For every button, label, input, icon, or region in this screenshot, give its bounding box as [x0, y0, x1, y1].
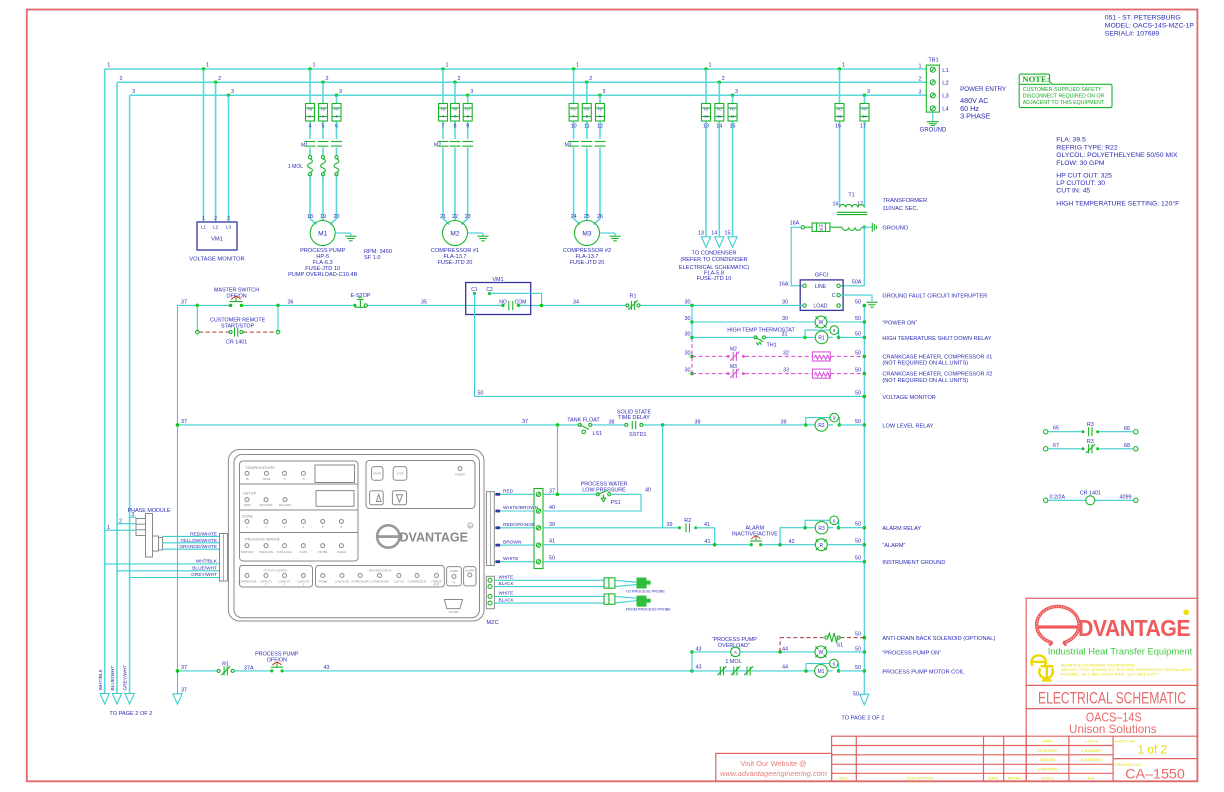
- svg-text:2: 2: [919, 76, 922, 82]
- svg-text:C2: C2: [486, 287, 493, 293]
- fuse FU4: [439, 104, 448, 122]
- title block frame: [1026, 598, 1197, 781]
- svg-text:3: 3: [919, 89, 922, 95]
- wire voltage monitor row 50: [475, 395, 865, 397]
- svg-text:DESIGNED: DESIGNED: [1037, 748, 1058, 753]
- svg-text:3: 3: [867, 89, 870, 95]
- terminal strip MZC: [534, 489, 543, 569]
- svg-text:30: 30: [782, 299, 788, 305]
- svg-text:39: 39: [667, 522, 673, 528]
- svg-text:GROUND FAULT CIRCUIT INTERUPTE: GROUND FAULT CIRCUIT INTERUPTER: [882, 293, 987, 299]
- svg-text:FU: FU: [465, 108, 470, 112]
- svg-text:FU: FU: [571, 108, 576, 112]
- voltage monitor VM1 box: [189, 216, 244, 263]
- timer contact SSTD1: [617, 410, 652, 439]
- svg-text:50: 50: [855, 331, 861, 337]
- svg-text:66: 66: [1124, 426, 1130, 432]
- svg-text:R3: R3: [818, 526, 825, 532]
- svg-text:TO PAGE 2 OF 2: TO PAGE 2 OF 2: [841, 715, 884, 721]
- svg-text:7: 7: [442, 123, 445, 129]
- svg-text:GROUND: GROUND: [920, 127, 947, 133]
- svg-text:CUT IN: 45: CUT IN: 45: [1056, 187, 1090, 194]
- contact R1 NC: [626, 293, 640, 310]
- wire bus L3: [130, 94, 927, 96]
- coil CR 1401: [1044, 491, 1139, 505]
- svg-text:REFRIG TYPE: R22: REFRIG TYPE: R22: [1056, 144, 1118, 151]
- wire row 39 RED/ORANGE: [543, 527, 678, 529]
- svg-text:2: 2: [589, 76, 592, 82]
- probe ferrules: [604, 578, 615, 605]
- ground at motor M1: [335, 232, 351, 234]
- title table grid: [1026, 736, 1197, 781]
- node: [276, 304, 280, 308]
- svg-text:TB: TB: [245, 477, 249, 481]
- svg-text:FLA: 39.5: FLA: 39.5: [1056, 137, 1086, 144]
- svg-text:15: 15: [725, 231, 731, 237]
- probe plug to: [637, 578, 651, 589]
- svg-text:WHT/BLK: WHT/BLK: [98, 668, 104, 690]
- svg-text:POWER ENTRY: POWER ENTRY: [960, 86, 1006, 93]
- svg-text:Unison Solutions: Unison Solutions: [1069, 722, 1157, 736]
- svg-text:SF 1.0: SF 1.0: [364, 255, 380, 261]
- svg-text:VM1: VM1: [211, 237, 223, 243]
- svg-text:WHITE: WHITE: [503, 556, 518, 562]
- svg-text:(REFER TO CONDENSER: (REFER TO CONDENSER: [680, 257, 747, 263]
- svg-text:50: 50: [855, 665, 861, 671]
- wire row 41 BROWN: [543, 544, 750, 546]
- motor M1: [310, 221, 335, 246]
- relay box VM1: [466, 277, 531, 315]
- svg-text:BLUE/WHT: BLUE/WHT: [192, 565, 217, 571]
- svg-text:23: 23: [465, 214, 471, 220]
- fuse FU6: [463, 104, 472, 122]
- svg-text:R: R: [819, 543, 823, 549]
- svg-text:3: 3: [603, 89, 606, 95]
- arrows to condenser: [701, 237, 710, 248]
- svg-text:1: 1: [842, 63, 845, 69]
- svg-text:CRANKCASE HEATER, COMPRESSOR #: CRANKCASE HEATER, COMPRESSOR #1: [882, 354, 992, 360]
- wire right rail 50: [863, 306, 865, 695]
- svg-text:12: 12: [731, 114, 735, 118]
- svg-text:STAT: STAT: [433, 582, 440, 586]
- svg-text:VOLTAGE MONITOR: VOLTAGE MONITOR: [189, 257, 244, 263]
- voltage monitor VM1 feeder wires: [203, 69, 205, 222]
- fuse FU13: [835, 104, 844, 122]
- svg-text:RED: RED: [503, 489, 514, 495]
- svg-text:15: 15: [730, 123, 736, 129]
- fuse FU7: [569, 104, 578, 122]
- ground under TB1: [920, 111, 947, 134]
- fuse FU9: [596, 104, 605, 122]
- svg-text:TX: TX: [452, 581, 456, 585]
- fuse FU10: [702, 104, 711, 122]
- svg-text:PUMP OVERLOAD-C10.4B: PUMP OVERLOAD-C10.4B: [288, 272, 357, 278]
- wire 50A from secondary to GFCI: [840, 227, 864, 286]
- svg-text:50: 50: [478, 390, 484, 396]
- svg-text:SCALE: SCALE: [1041, 776, 1054, 781]
- motor M3 branch wires: [574, 69, 600, 225]
- svg-text:FUSE-JTD 10: FUSE-JTD 10: [697, 276, 732, 282]
- svg-text:37: 37: [181, 665, 187, 671]
- svg-text:ANTI-DRAIN BACK SOLENOID (OPTI: ANTI-DRAIN BACK SOLENOID (OPTIONAL): [882, 636, 995, 642]
- svg-text:FU: FU: [862, 108, 867, 112]
- svg-text:GLYCOL: POLYETHELYENE 50/50 MI: GLYCOL: POLYETHELYENE 50/50 MIX: [1056, 152, 1178, 159]
- svg-text:MODEL: OACS-14S-MZC-1P: MODEL: OACS-14S-MZC-1P: [1105, 23, 1195, 30]
- svg-text:WHITE/BROWN: WHITE/BROWN: [503, 505, 539, 511]
- svg-text:21: 21: [440, 214, 446, 220]
- wire bypass stubs: [196, 305, 198, 332]
- svg-text:LS1: LS1: [593, 431, 603, 437]
- svg-text:30: 30: [782, 316, 788, 322]
- svg-text:37: 37: [181, 688, 187, 694]
- svg-text:L2: L2: [942, 80, 948, 86]
- svg-text:SSTD1: SSTD1: [629, 432, 646, 438]
- controller output control panel: [240, 566, 313, 588]
- svg-text:C1: C1: [471, 287, 478, 293]
- svg-text:PRESSURE: PRESSURE: [259, 550, 274, 554]
- svg-text:R2: R2: [818, 423, 825, 429]
- heater crankcase 2: [812, 369, 830, 378]
- svg-text:FLOW: 30 GPM: FLOW: 30 GPM: [1056, 160, 1105, 167]
- svg-text:1: 1: [709, 63, 712, 69]
- svg-text:RS-485: RS-485: [449, 610, 459, 614]
- svg-text:POWER: POWER: [455, 473, 465, 477]
- svg-text:1: 1: [313, 63, 316, 69]
- svg-text:FUSE-JTD 20: FUSE-JTD 20: [570, 260, 605, 266]
- svg-text:4: 4: [442, 114, 444, 118]
- wire left rail 37: [177, 305, 179, 693]
- svg-text:3: 3: [227, 216, 230, 222]
- svg-text:50: 50: [855, 299, 861, 305]
- fuse FU12: [728, 104, 737, 122]
- svg-text:GROUND: GROUND: [882, 225, 908, 231]
- svg-text:OUTPUT CONTROL: OUTPUT CONTROL: [263, 569, 288, 573]
- svg-text:50: 50: [855, 632, 861, 638]
- contact M2 aux NC: [727, 355, 730, 358]
- svg-text:YELLOW/WHITE: YELLOW/WHITE: [180, 538, 217, 544]
- svg-text:4: 4: [309, 123, 312, 129]
- svg-text:37: 37: [549, 488, 555, 494]
- svg-text:16: 16: [835, 123, 841, 129]
- svg-text:4099: 4099: [1120, 495, 1132, 501]
- controller comm/alarm panels: [447, 567, 476, 586]
- svg-text:BROWN: BROWN: [503, 539, 522, 545]
- svg-text:SETUP: SETUP: [243, 491, 257, 496]
- svg-text:“PROCESS PUMP ON”: “PROCESS PUMP ON”: [882, 650, 941, 656]
- svg-text:L1: L1: [201, 225, 207, 230]
- svg-text:PS1: PS1: [611, 500, 621, 506]
- svg-text:LOW OIL: LOW OIL: [393, 580, 404, 584]
- svg-text:5: 5: [322, 123, 325, 129]
- svg-text:5: 5: [454, 114, 456, 118]
- svg-text:6: 6: [467, 114, 469, 118]
- svg-text:37: 37: [522, 419, 528, 425]
- svg-text:LP CUTOUT: 30: LP CUTOUT: 30: [1056, 180, 1105, 187]
- svg-text:R3: R3: [1087, 439, 1094, 445]
- contact R3 NC spare: [1044, 439, 1139, 453]
- node: [540, 304, 544, 308]
- svg-text:50: 50: [549, 556, 555, 562]
- svg-text:9: 9: [599, 114, 601, 118]
- svg-text:TEMP DEV: TEMP DEV: [240, 550, 253, 554]
- wire up to overload lamp rung: [691, 652, 693, 671]
- svg-text:12: 12: [597, 123, 603, 129]
- fuse FU11: [715, 104, 724, 122]
- wire drop to R2 contact row: [662, 425, 664, 528]
- svg-text:TH1: TH1: [767, 343, 777, 349]
- svg-text:BLACK: BLACK: [499, 597, 515, 602]
- svg-text:N/A: N/A: [1088, 776, 1095, 781]
- svg-text:31: 31: [782, 331, 788, 337]
- contact M3 aux NC: [727, 372, 730, 375]
- svg-text:13: 13: [698, 231, 704, 237]
- svg-text:37: 37: [181, 419, 187, 425]
- svg-text:FU: FU: [837, 108, 842, 112]
- alarm horn: [815, 539, 827, 551]
- transformer T1 primary feeder wires: [840, 69, 865, 208]
- svg-text:1: 1: [446, 63, 449, 69]
- svg-text:L3: L3: [942, 94, 948, 100]
- svg-text:C: C: [832, 293, 836, 299]
- svg-text:6: 6: [335, 123, 338, 129]
- svg-text:CHECKED: CHECKED: [1038, 766, 1058, 771]
- svg-text:W: W: [819, 650, 824, 656]
- controller keypad panel: [366, 461, 475, 509]
- svg-text:NETWORK: NETWORK: [259, 503, 273, 507]
- wire segments through 1 MOL contacts: [692, 670, 806, 672]
- svg-text:50: 50: [855, 316, 861, 322]
- wire up to R3 coil row: [780, 528, 805, 545]
- svg-text:MACHINE STATUS: MACHINE STATUS: [369, 569, 392, 573]
- svg-text:PHONE: 317-887-0729 FAX: 31: PHONE: 317-887-0729 FAX: 317-881-1277: [1061, 672, 1160, 677]
- switch process pump OFF/ON: [255, 652, 299, 673]
- solenoid S1: [825, 633, 843, 648]
- svg-text:1: 1: [309, 114, 311, 118]
- svg-text:LOW FLOW: LOW FLOW: [335, 580, 350, 584]
- svg-text:HIGH TEMERATURE SHUT DOWN RELA: HIGH TEMERATURE SHUT DOWN RELAY: [882, 336, 991, 342]
- svg-text:M2: M2: [730, 347, 737, 353]
- probe terminal block: [486, 576, 494, 608]
- svg-text:L3: L3: [226, 225, 232, 230]
- svg-text:FU: FU: [585, 108, 590, 112]
- node secondary right: [863, 226, 866, 229]
- svg-text:VOLTAGE MONITOR: VOLTAGE MONITOR: [882, 395, 935, 401]
- wire bus L2: [117, 81, 926, 83]
- svg-text:HP CUT OUT: 325: HP CUT OUT: 325: [1056, 172, 1112, 179]
- svg-text:FU: FU: [717, 108, 722, 112]
- wire PS1 loop to row 40: [543, 494, 641, 511]
- svg-text:1: 1: [576, 63, 579, 69]
- svg-text:1: 1: [919, 63, 922, 69]
- svg-text:37A: 37A: [244, 665, 254, 671]
- Advantage logo: [1037, 606, 1193, 656]
- job id text block: [1105, 15, 1195, 38]
- svg-text:26: 26: [597, 214, 603, 220]
- svg-text:17: 17: [860, 123, 866, 129]
- switch master OFF/ON: [214, 287, 259, 307]
- svg-text:LOW PRESSURE: LOW PRESSURE: [582, 487, 626, 493]
- svg-text:TB1: TB1: [928, 58, 938, 64]
- svg-text:FROM PROCESS PROBE: FROM PROCESS PROBE: [626, 607, 672, 611]
- junction dots on buses: [202, 67, 867, 97]
- svg-text:14: 14: [863, 114, 867, 118]
- svg-text:R2: R2: [684, 518, 691, 524]
- GFCI box: [800, 273, 843, 311]
- svg-text:32: 32: [783, 350, 789, 356]
- svg-text:8: 8: [586, 114, 588, 118]
- svg-text:43: 43: [324, 665, 330, 671]
- svg-text:39: 39: [549, 522, 555, 528]
- svg-text:MASTER SWITCH: MASTER SWITCH: [214, 287, 259, 293]
- website box: [716, 753, 832, 781]
- svg-text:FU: FU: [453, 108, 458, 112]
- svg-text:S1: S1: [837, 642, 844, 648]
- svg-text:2: 2: [458, 76, 461, 82]
- svg-text:44: 44: [782, 646, 788, 652]
- svg-text:A SANDER: A SANDER: [1081, 748, 1101, 753]
- svg-text:16: 16: [819, 228, 823, 232]
- svg-text:LO PRESSURE: LO PRESSURE: [370, 580, 389, 584]
- svg-text:TRANSFORMER: TRANSFORMER: [882, 198, 927, 204]
- revision table: [832, 736, 1027, 781]
- svg-text:39: 39: [695, 419, 701, 425]
- wires connector to terminal strip: [494, 494, 534, 561]
- svg-text:051 - ST. PETERSBURG: 051 - ST. PETERSBURG: [1105, 15, 1181, 22]
- svg-text:0:2/2A: 0:2/2A: [1050, 495, 1066, 501]
- svg-text:13: 13: [703, 123, 709, 129]
- svg-text:°F: °F: [302, 477, 305, 481]
- svg-text:“ALARM”: “ALARM”: [882, 543, 905, 549]
- contact CR1401 customer remote: [196, 317, 280, 345]
- svg-text:DVANTAGE: DVANTAGE: [1078, 615, 1190, 641]
- svg-text:41: 41: [549, 539, 555, 545]
- svg-text:11: 11: [718, 114, 722, 118]
- svg-text:DVANTAGE: DVANTAGE: [400, 529, 469, 544]
- contact R2 NO: [678, 518, 697, 533]
- node: [690, 669, 694, 673]
- svg-text:FU: FU: [598, 108, 603, 112]
- controller Advantage wordmark: [377, 523, 473, 548]
- svg-text:STOP: STOP: [396, 472, 403, 476]
- fuse FU8: [582, 104, 591, 122]
- svg-text:30: 30: [685, 331, 691, 337]
- svg-text:39: 39: [781, 419, 787, 425]
- svg-text:11: 11: [584, 123, 590, 129]
- svg-text:ZONE: ZONE: [242, 514, 253, 519]
- svg-text:DRAWN: DRAWN: [1040, 757, 1055, 762]
- svg-text:(NOT REQUIRED ON ALL UNITS): (NOT REQUIRED ON ALL UNITS): [882, 378, 968, 384]
- svg-text:A SANDER: A SANDER: [1081, 757, 1101, 762]
- svg-text:ORANGE/WHITE: ORANGE/WHITE: [179, 544, 217, 550]
- transformer T1: [833, 192, 928, 230]
- svg-text:33: 33: [783, 368, 789, 374]
- svg-text:R1: R1: [630, 293, 637, 299]
- svg-text:COMPRESSOR: COMPRESSOR: [408, 580, 427, 584]
- svg-text:ALARM RELAY: ALARM RELAY: [882, 526, 921, 532]
- svg-text:2: 2: [722, 76, 725, 82]
- svg-text:13: 13: [838, 114, 842, 118]
- svg-text:37: 37: [181, 299, 187, 305]
- ground transformer secondary: [872, 223, 876, 232]
- svg-text:65: 65: [1053, 426, 1059, 432]
- svg-text:3: 3: [132, 89, 135, 95]
- wire left ladder rail 30: [691, 305, 693, 337]
- heater crankcase 1: [812, 352, 830, 361]
- svg-text:GFCI: GFCI: [815, 273, 829, 279]
- svg-text:ELECTRICAL SCHEMATIC: ELECTRICAL SCHEMATIC: [1038, 690, 1186, 708]
- wire R2 out corner to row 41: [696, 528, 715, 545]
- svg-text:M2: M2: [450, 231, 459, 238]
- svg-text:3 PHASE: 3 PHASE: [960, 111, 991, 120]
- svg-text:LOAD: LOAD: [813, 304, 827, 310]
- svg-text:22: 22: [452, 214, 458, 220]
- svg-text:ADJACENT TO THIS EQUIPMENT.: ADJACENT TO THIS EQUIPMENT.: [1023, 100, 1105, 106]
- svg-text:LINE: LINE: [815, 284, 827, 290]
- svg-text:L1: L1: [942, 68, 948, 74]
- svg-text:INSTRUMENT GROUND: INSTRUMENT GROUND: [882, 560, 945, 566]
- svg-text:R3: R3: [1087, 422, 1094, 428]
- svg-text:FU: FU: [321, 108, 326, 112]
- svg-text:DATE: DATE: [988, 776, 999, 781]
- svg-text:TANK FLOAT: TANK FLOAT: [567, 418, 600, 424]
- ground at motor M3: [600, 232, 616, 234]
- svg-text:HIGH TEMPERATURE SETTING: 120°: HIGH TEMPERATURE SETTING: 120°F: [1056, 200, 1179, 208]
- svg-text:CR 1401: CR 1401: [226, 340, 247, 346]
- svg-text:2: 2: [326, 76, 329, 82]
- svg-text:PROCESS PUMP MOTOR COIL: PROCESS PUMP MOTOR COIL: [882, 669, 964, 675]
- svg-text:M1: M1: [318, 231, 327, 238]
- controller left LED panel: [240, 461, 359, 561]
- pressure switch PS1: [581, 482, 628, 507]
- svg-text:44: 44: [782, 664, 788, 670]
- svg-text:110VAC SEC.: 110VAC SEC.: [882, 206, 918, 212]
- relay coil R2 low level: [804, 413, 864, 431]
- svg-text:PROCESS WATER: PROCESS WATER: [245, 537, 280, 542]
- svg-text:DESCRIPTION: DESCRIPTION: [906, 776, 933, 781]
- svg-text:M3: M3: [730, 364, 737, 370]
- contact R3 NO spare: [1044, 422, 1139, 436]
- svg-text:FROM: FROM: [263, 477, 271, 481]
- fuse FU16: [804, 223, 842, 232]
- svg-text:30: 30: [685, 350, 691, 356]
- svg-text:FUSE-JTD 20: FUSE-JTD 20: [438, 260, 473, 266]
- svg-text:40: 40: [645, 488, 651, 494]
- fuse FU1: [306, 104, 315, 122]
- wire tank float row 37: [178, 424, 806, 426]
- svg-text:3: 3: [735, 89, 738, 95]
- wires columns to controller lower group: [105, 563, 220, 565]
- svg-text:RED/ORANGE: RED/ORANGE: [503, 522, 535, 528]
- svg-text:TIME DELAY: TIME DELAY: [618, 415, 650, 421]
- rung crankcase heater 1: [685, 347, 865, 361]
- svg-text:30: 30: [685, 316, 691, 322]
- contact R1 NC pump: [217, 662, 234, 676]
- svg-text:35: 35: [421, 299, 427, 305]
- svg-text:COM: COM: [515, 299, 527, 305]
- arrows columns to page 2: [100, 694, 109, 705]
- svg-text:3: 3: [339, 89, 342, 95]
- svg-text:(NOT REQUIRED ON ALL UNITS): (NOT REQUIRED ON ALL UNITS): [882, 361, 968, 367]
- svg-text:8: 8: [454, 123, 457, 129]
- svg-text:HI PRESSURE: HI PRESSURE: [351, 580, 369, 584]
- probe plug from: [637, 596, 651, 607]
- svg-text:TO PROCESS PROBE: TO PROCESS PROBE: [626, 589, 666, 593]
- motor M2 branch wires: [443, 69, 468, 225]
- svg-text:FU: FU: [730, 108, 735, 112]
- wire left column 2: [116, 82, 118, 693]
- rung POWER ON lamp: [692, 321, 815, 323]
- svg-text:20: 20: [334, 214, 340, 220]
